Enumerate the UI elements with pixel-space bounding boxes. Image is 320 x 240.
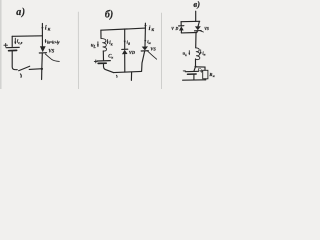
wire: a) left vertical to capacitor: [11, 36, 13, 46]
wire: v) top rail: [181, 20, 200, 22]
capacitor C plate bottom: [9, 49, 17, 51]
svg-text:а): а): [16, 7, 25, 18]
thyristor VS triangle: [40, 46, 46, 52]
wire: b) bottom-left corner and diagonal: [104, 64, 114, 73]
wire: b) bottom horizontal: [114, 71, 142, 72]
wire: b) top-left corner down: [100, 30, 102, 38]
wire: v) top riser: [195, 11, 197, 21]
thyristor VS2 cathode bar: [141, 50, 148, 52]
arrow + label in right of coil: [200, 50, 202, 54]
wire: b) top riser: [144, 23, 146, 28]
svg-text:VD: VD: [171, 27, 178, 31]
wire: a) top horizontal: [12, 35, 42, 38]
inductor L2 coil: [196, 48, 200, 60]
svg-text:uL: uL: [91, 44, 97, 49]
arrowhead on thyristor branch: [144, 40, 146, 43]
arrow ic beside battery: [14, 38, 16, 43]
scan left edge shading: [0, 0, 2, 89]
svg-text:iс,е: iс,е: [17, 40, 23, 45]
wire: a) bottom horizontal: [29, 68, 42, 71]
svg-text:iк: iк: [109, 41, 112, 46]
wire: v) left branch upper: [180, 22, 182, 26]
capacitor Cf plate top: [185, 70, 198, 72]
wire: a) cathode lead down + bottom stub: [41, 36, 44, 80]
wire: b) diode branch upper: [124, 29, 126, 49]
thyristor VS cathode bar: [39, 52, 46, 54]
wire: resistor to bottom: [204, 79, 206, 80]
diode VD1 bar: [179, 25, 184, 27]
arrowhead current ik on riser: [41, 27, 43, 30]
diode VD1 triangle (pointing up): [179, 26, 184, 30]
capacitor Ck plate bottom: [98, 62, 106, 64]
svg-text:VS: VS: [48, 50, 54, 55]
svg-text:VS: VS: [204, 27, 209, 31]
wire: thyristor cathode to bottom: [142, 51, 145, 71]
svg-text:i: i: [149, 25, 151, 32]
arrow + label ik right of coil: [107, 40, 109, 44]
svg-text:б): б): [105, 9, 113, 20]
plus tick at Cf: [183, 70, 185, 72]
wire: capacitor to bottom: [193, 75, 195, 80]
wire: thyristor branch upper: [144, 28, 146, 46]
wire: v) right branch lower: [196, 31, 197, 33]
arrowhead on b riser: [144, 25, 146, 28]
inductor L coil: [101, 38, 106, 51]
thyristor VS3 triangle: [195, 26, 201, 30]
wire: b) top horizontal: [101, 28, 145, 30]
thyristor VS2 gate: [148, 51, 157, 59]
switch tick mark: [19, 74, 22, 77]
svg-text:VD: VD: [129, 50, 136, 55]
capacitor C (battery) plate top: [6, 46, 19, 48]
svg-text:Ск: Ск: [108, 54, 113, 59]
wire: b) bottom stub down: [130, 72, 132, 81]
svg-text:i: i: [45, 24, 47, 31]
divider between a and b: [77, 12, 79, 89]
resistor Rn box: [203, 70, 208, 79]
svg-text:в): в): [193, 0, 200, 9]
wire: diode branch lower: [124, 54, 126, 72]
svg-text:VS: VS: [150, 46, 156, 51]
capacitor Ck plate top: [97, 60, 110, 62]
thyristor VS3 gate: [201, 31, 204, 32]
arrow ia beside anode wire: [45, 40, 47, 43]
wire: v) left branch lower: [180, 31, 182, 33]
wire: coil to junction: [195, 59, 197, 67]
tick mark on b bottom: [115, 75, 118, 77]
wire: a) top riser (anode lead from above): [41, 24, 43, 37]
capacitor Cf plate bottom: [188, 73, 197, 75]
junction node: [41, 68, 43, 70]
wire: a) lower-left lead with corner: [12, 51, 17, 70]
arrowhead on diode branch: [124, 41, 126, 44]
wire: coil to capacitor: [102, 51, 104, 60]
wire: v) right branch upper: [198, 21, 199, 26]
diode VD triangle (pointing up): [122, 50, 128, 54]
thyristor VS3 cathode bar: [195, 30, 202, 32]
wire: v) down to coil: [195, 33, 197, 48]
junction node v: [195, 66, 197, 68]
wire: junction to capacitor: [194, 67, 196, 71]
plus at Ck: [94, 60, 97, 63]
wire: junction to resistor: [196, 67, 206, 70]
wire: v) bottom rail: [183, 79, 206, 81]
thyristor VS2 triangle: [142, 46, 148, 50]
divider between b and v: [161, 13, 163, 89]
diode VD bar: [122, 48, 128, 50]
switch blade S: [19, 66, 30, 71]
svg-text:iа=iс+iу: iа=iс+iу: [47, 40, 60, 45]
plus sign of capacitor: [4, 43, 8, 47]
thyristor VS gate: [45, 54, 59, 62]
wire: v) bottom rail of pair: [181, 32, 197, 34]
